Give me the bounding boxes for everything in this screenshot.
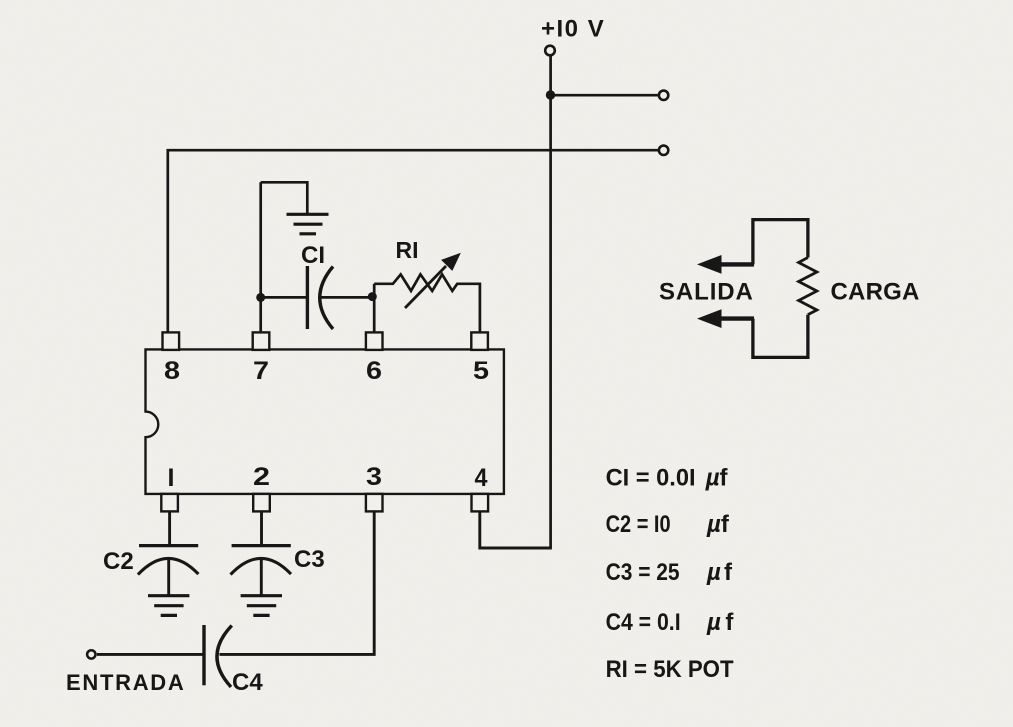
svg-text:µf: µf [705,465,729,492]
svg-text:C4 = 0.I: C4 = 0.I [606,609,681,636]
svg-text:RI = 5K POT: RI = 5K POT [606,656,734,683]
pin 5 [471,332,488,350]
pin 6 [366,332,383,350]
load frame bottom [753,315,808,358]
svg-text:8: 8 [164,357,180,385]
capacitor C1 [307,266,333,329]
pot arrow R1 [405,253,461,308]
svg-text:C2: C2 [103,548,134,575]
arrow output top [697,255,754,274]
capacitor C2 (electrolytic) [138,546,199,597]
arrow output bottom [697,309,754,328]
svg-text:µ f: µ f [706,559,733,586]
terminal output A (open circle) [659,91,668,100]
ground (C3) [241,596,282,616]
pin 1 [161,494,178,512]
svg-text:I: I [168,464,175,492]
wire input to C4 [97,653,203,656]
IC U1 body (8-pin DIP) [146,349,504,494]
pin 4 [472,494,489,512]
svg-text:ENTRADA: ENTRADA [66,670,185,695]
svg-text:7: 7 [253,357,269,385]
ground (near C1) [287,214,329,234]
svg-text:C3 = 25: C3 = 25 [606,559,680,586]
svg-text:CI: CI [301,242,325,269]
svg-text:5: 5 [473,357,489,385]
pin 8 [163,332,180,350]
wire C4 to pin 3 [220,511,375,654]
svg-text:µ f: µ f [706,609,734,636]
svg-text:6: 6 [366,357,382,385]
pin 2 [253,494,270,512]
wire +10V rail vertical [549,56,552,548]
capacitor C4 [204,625,232,687]
wire ground branch from pin 7 [261,182,308,213]
pin 3 [366,494,383,512]
wire pin 1 down [168,511,171,544]
ground (C2) [148,596,189,616]
svg-text:CI = 0.0I: CI = 0.0I [606,465,696,492]
terminal +10V (open circle) [545,46,555,56]
wire output A horizontal [551,94,658,97]
svg-text:C3: C3 [294,546,325,573]
junction pin 7 node [256,293,265,302]
wire pin7 to C1 [261,296,306,299]
wire pin 6 vertical [373,284,376,333]
resistor CARGA [799,258,817,315]
pin 7 [253,332,270,350]
svg-text:3: 3 [366,463,382,491]
svg-text:SALIDA: SALIDA [659,279,754,306]
svg-text:C4: C4 [232,669,263,696]
wire pin 2 down [260,511,263,544]
terminal input (open circle) [87,650,95,658]
resistor R1 (5K potentiometer) [374,274,480,333]
junction supply node [546,90,555,99]
wire pin 7 vertical [259,182,262,333]
junction pin 6 node [368,292,377,301]
load circuit frame [753,220,808,265]
wire pin 4 to rail [480,511,552,548]
svg-text:4: 4 [475,464,488,492]
capacitor C3 (electrolytic) [231,546,292,597]
svg-text:µf: µf [706,511,730,538]
svg-text:+I0 V: +I0 V [541,16,605,43]
wire output B horizontal from pin 8 [168,150,658,333]
svg-text:2: 2 [253,463,270,491]
svg-text:RI: RI [396,237,419,263]
svg-text:C2 = I0: C2 = I0 [606,511,671,538]
terminal output B (open circle) [659,146,668,155]
wire C1 to pin 6 [321,296,369,299]
svg-text:CARGA: CARGA [831,279,920,306]
